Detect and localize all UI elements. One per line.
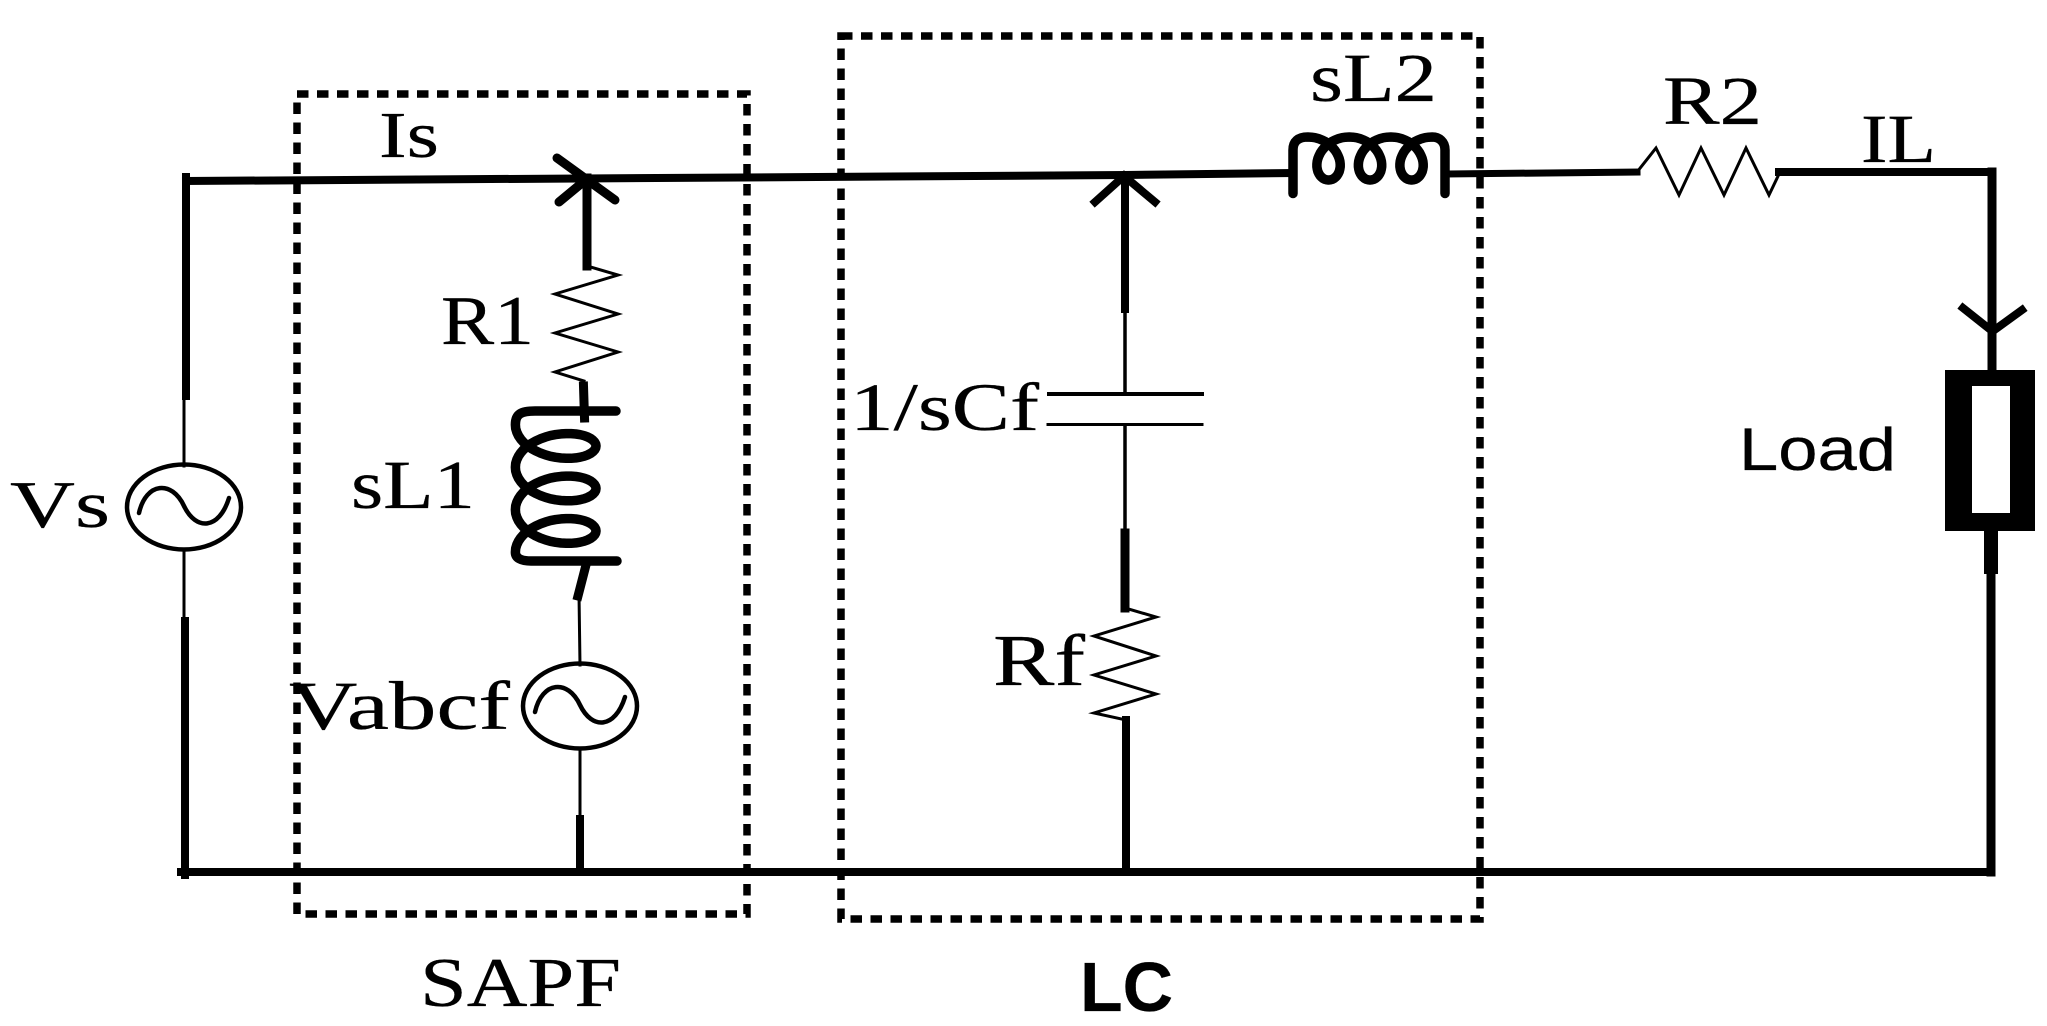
svg-text:IL: IL [1861, 101, 1936, 177]
svg-text:sL1: sL1 [351, 447, 475, 523]
svg-text:1/sCf: 1/sCf [850, 369, 1039, 445]
wire left vertical upper [182, 177, 190, 396]
svg-text:Rf: Rf [993, 620, 1086, 701]
wire from Vabcf bottom [579, 748, 582, 819]
current arrow Is barb NW-SE [557, 158, 615, 200]
inductor sL2 [1293, 137, 1445, 194]
current arrow Is barb SW [559, 178, 588, 202]
wire R2 to IL corner [1779, 168, 1992, 176]
load rectangle outer [1945, 370, 2035, 531]
LC dashed box [841, 36, 1480, 919]
AC source Vs circle [127, 465, 241, 550]
svg-text:Is: Is [379, 99, 439, 172]
wire capacitor to Rf thin [1123, 426, 1127, 533]
wire left vertical lower [181, 621, 189, 875]
load arrow barb left [1963, 308, 1992, 331]
svg-text:R2: R2 [1663, 63, 1762, 139]
wire bottom [181, 868, 1991, 876]
AC source Vs sine symbol [139, 488, 229, 524]
AC source Vabcf circle [523, 664, 637, 749]
AC source Vabcf sine symbol [535, 687, 625, 723]
node arrow barb right [1124, 176, 1155, 202]
node arrow barb left [1095, 176, 1124, 202]
SAPF dashed box [297, 94, 747, 914]
load arrow barb right [1993, 310, 2022, 331]
wire lead from Vs bottom [183, 549, 186, 621]
capacitor 1/sCf bottom plate [1048, 423, 1202, 426]
resistor R1 [555, 266, 618, 381]
wire lead sL1 bottom [578, 565, 586, 596]
svg-text:LC: LC [1080, 948, 1173, 1026]
wire top [186, 173, 1291, 181]
resistor Rf [1094, 608, 1156, 720]
wire lead into Vs top [183, 396, 186, 466]
svg-text:R1: R1 [441, 283, 534, 360]
wire right vertical lower [1987, 567, 1996, 872]
capacitor 1/sCf top plate [1049, 392, 1202, 396]
node arrow shaft (filter branch) [1121, 176, 1129, 309]
wire Rf to bottom [1122, 720, 1130, 872]
wire stub to bottom rail [576, 819, 584, 872]
load rectangle inner white [1972, 386, 2010, 513]
wire right vertical [1988, 172, 1997, 370]
wire capacitor to Rf thick [1121, 533, 1130, 608]
svg-text:sL2: sL2 [1310, 40, 1437, 116]
wire load bottom stub [1984, 531, 1998, 567]
svg-text:Load: Load [1739, 416, 1896, 483]
wire sL2 to R2 [1448, 172, 1637, 174]
inductor sL1 [515, 411, 617, 561]
resistor R2 [1637, 148, 1780, 195]
svg-text:Vabcf: Vabcf [289, 668, 510, 744]
svg-text:Vs: Vs [10, 468, 110, 542]
wire to Vabcf top [579, 594, 580, 665]
svg-text:SAPF: SAPF [420, 945, 621, 1022]
wire to capacitor [1123, 309, 1127, 392]
wire lead R1 to sL1 [584, 386, 585, 418]
current arrow Is shaft / wire to R1 [583, 178, 592, 266]
